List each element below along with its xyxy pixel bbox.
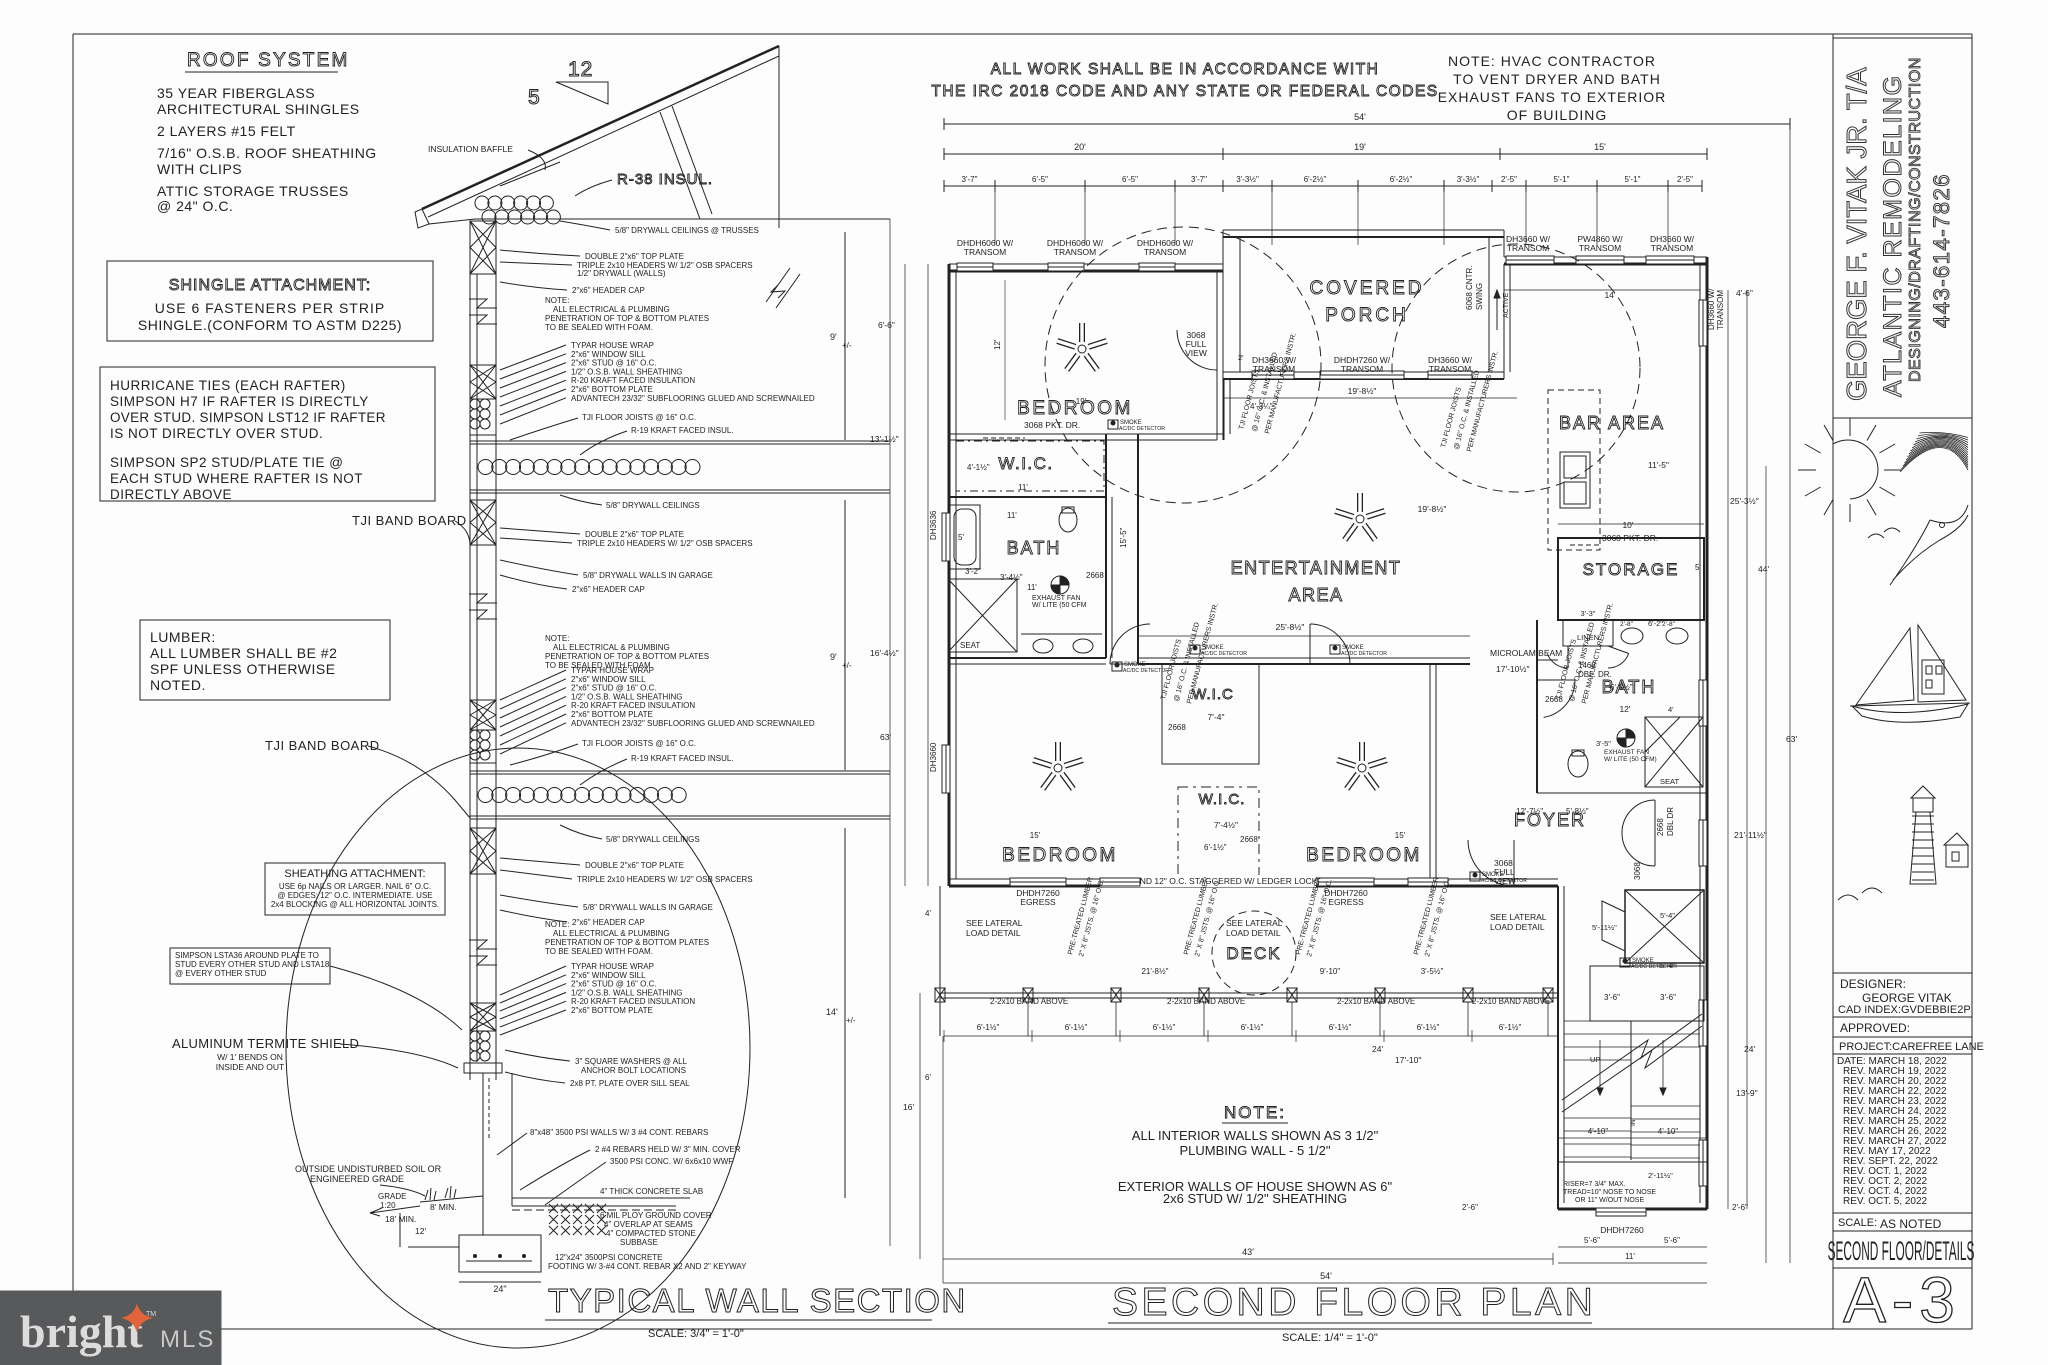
svg-text:3" SQUARE WASHERS @ ALL: 3" SQUARE WASHERS @ ALL [575, 1057, 688, 1066]
svg-text:2'-6": 2'-6" [1732, 1203, 1748, 1212]
svg-text:ENGINEERED GRADE: ENGINEERED GRADE [310, 1174, 404, 1184]
wall callout stack 3 [500, 962, 695, 1035]
svg-text:2"x6" HEADER CAP: 2"x6" HEADER CAP [572, 286, 645, 295]
note block 3 [545, 920, 709, 956]
svg-text:6'-1½": 6'-1½" [1499, 1023, 1522, 1032]
svg-text:3'-3½": 3'-3½" [1457, 175, 1480, 184]
svg-text:TYPICAL WALL SECTION: TYPICAL WALL SECTION [548, 1282, 967, 1319]
svg-text:6'-8½": 6'-8½" [1610, 683, 1633, 692]
svg-text:REV. OCT. 5, 2022: REV. OCT. 5, 2022 [1843, 1196, 1928, 1207]
note block 1 electrical plumbing [545, 296, 709, 332]
svg-text:12: 12 [568, 58, 593, 81]
svg-text:TRANSOM: TRANSOM [1054, 247, 1097, 257]
svg-text:4'-10": 4'-10" [1588, 1127, 1609, 1136]
svg-text:TYPAR HOUSE WRAP: TYPAR HOUSE WRAP [571, 341, 654, 350]
svg-text:4'-10": 4'-10" [1658, 1127, 1679, 1136]
svg-text:5/8" DRYWALL WALLS IN GARAGE: 5/8" DRYWALL WALLS IN GARAGE [583, 571, 713, 580]
svg-text:5/8" DRYWALL CEILINGS: 5/8" DRYWALL CEILINGS [606, 835, 700, 844]
svg-text:ADVANTECH 23/32" SUBFLOORING G: ADVANTECH 23/32" SUBFLOORING GLUED AND S… [571, 394, 815, 403]
right dim columns [1372, 124, 1797, 1263]
note block 2 [545, 634, 709, 670]
svg-text:TJI FLOOR JOISTS @ 16" O.C.: TJI FLOOR JOISTS @ 16" O.C. [582, 739, 696, 748]
svg-text:SIMPSON H7 IF RAFTER IS DIRECT: SIMPSON H7 IF RAFTER IS DIRECTLY [110, 394, 369, 409]
bath top-left room [948, 505, 1104, 653]
svg-text:15': 15' [1030, 831, 1041, 840]
svg-text:18' MIN.: 18' MIN. [385, 1214, 416, 1224]
svg-text:TM: TM [146, 1311, 156, 1318]
svg-text:4'-1½": 4'-1½" [967, 463, 990, 472]
svg-text:EXHAUST FAN: EXHAUST FAN [1032, 595, 1081, 602]
svg-text:3'-3½": 3'-3½" [1236, 175, 1259, 184]
svg-text:24": 24" [493, 1284, 506, 1294]
svg-text:+/-: +/- [846, 1016, 856, 1025]
svg-text:BEDROOM: BEDROOM [1306, 845, 1422, 866]
svg-text:EXHAUST FANS TO EXTERIOR: EXHAUST FANS TO EXTERIOR [1438, 89, 1667, 105]
svg-text:TO BE SEALED WITH FOAM.: TO BE SEALED WITH FOAM. [545, 323, 653, 332]
svg-text:DECK: DECK [1226, 944, 1281, 963]
wall break symbol 2 [469, 594, 497, 619]
svg-text:DOUBLE 2"x6" TOP PLATE: DOUBLE 2"x6" TOP PLATE [585, 530, 684, 539]
svg-text:6'-1½": 6'-1½" [1204, 843, 1227, 852]
foundation wall [483, 1073, 741, 1235]
svg-text:3'-7": 3'-7" [1191, 175, 1207, 184]
svg-text:19': 19' [1076, 397, 1087, 406]
svg-text:W.I.C: W.I.C [1192, 686, 1234, 703]
svg-text:BEDROOM: BEDROOM [1002, 845, 1118, 866]
drywall ceiling label 1 [560, 495, 700, 510]
svg-text:SCALE: 1/4" = 1'-0": SCALE: 1/4" = 1'-0" [1282, 1332, 1378, 1344]
svg-text:16': 16' [903, 1102, 914, 1112]
svg-text:5'-6": 5'-6" [1584, 1236, 1600, 1245]
svg-text:3'-6": 3'-6" [1604, 993, 1620, 1002]
svg-text:NOTE:: NOTE: [545, 920, 569, 929]
svg-text:LUMBER:: LUMBER: [150, 629, 216, 645]
svg-text:3'-5": 3'-5" [1596, 739, 1611, 748]
svg-text:W/ LITE (50 CFM): W/ LITE (50 CFM) [1604, 756, 1657, 763]
roof system heading [185, 50, 350, 72]
svg-text:DH3636: DH3636 [929, 510, 938, 540]
svg-text:ALL ELECTRICAL & PLUMBING: ALL ELECTRICAL & PLUMBING [553, 929, 670, 938]
svg-text:PENETRATION OF TOP & BOTTOM PL: PENETRATION OF TOP & BOTTOM PLATES [545, 938, 709, 947]
svg-text:2"x6" WINDOW SILL: 2"x6" WINDOW SILL [571, 675, 646, 684]
microlam beam label [1490, 648, 1562, 674]
svg-text:6'-1½": 6'-1½" [1417, 1023, 1440, 1032]
svg-text:TRANSOM: TRANSOM [1579, 243, 1622, 253]
svg-text:LINEN: LINEN [1577, 633, 1599, 642]
vertical wall right of middle bedroom [1430, 664, 1436, 886]
deck region [966, 912, 1547, 976]
svg-text:NOTE:: NOTE: [1224, 1103, 1286, 1122]
svg-text:14': 14' [1604, 290, 1615, 300]
anchor washers callouts [505, 1050, 690, 1088]
entertainment area label [1231, 558, 1402, 605]
svg-text:ALL WORK SHALL BE IN ACCORDANC: ALL WORK SHALL BE IN ACCORDANCE WITH [991, 61, 1380, 78]
svg-text:OR 11" W/OUT NOSE: OR 11" W/OUT NOSE [1575, 1197, 1644, 1204]
svg-text:6'-1½": 6'-1½" [1065, 1023, 1088, 1032]
svg-text:IS NOT DIRECTLY OVER STUD.: IS NOT DIRECTLY OVER STUD. [110, 426, 323, 441]
tji label 2 [510, 739, 696, 765]
svg-text:USE 6p NAILS OR LARGER. NAIL 6: USE 6p NAILS OR LARGER. NAIL 6" O.C. [279, 882, 431, 891]
svg-text:DH3660: DH3660 [929, 742, 938, 772]
svg-text:DBL DR: DBL DR [1666, 807, 1675, 836]
svg-text:4" OVERLAP AT SEAMS: 4" OVERLAP AT SEAMS [604, 1220, 693, 1229]
svg-text:APPROVED:: APPROVED: [1840, 1021, 1910, 1035]
svg-text:ADVANTECH 23/32" SUBFLOORING G: ADVANTECH 23/32" SUBFLOORING GLUED AND S… [571, 719, 815, 728]
svg-text:8"x48" 3500 PSI WALLS W/ 3 #4: 8"x48" 3500 PSI WALLS W/ 3 #4 CONT. REBA… [530, 1128, 708, 1137]
svg-text:3'-5½": 3'-5½" [1421, 967, 1444, 976]
svg-text:5'-4": 5'-4" [1660, 911, 1675, 920]
svg-text:BATH: BATH [1007, 538, 1062, 558]
svg-text:ALUMINUM TERMITE SHIELD: ALUMINUM TERMITE SHIELD [172, 1036, 359, 1051]
svg-text:ALL ELECTRICAL & PLUMBING: ALL ELECTRICAL & PLUMBING [553, 643, 670, 652]
plan bottom dims 43 54 [943, 1036, 1707, 1283]
svg-text:NOTE:: NOTE: [545, 296, 569, 305]
svg-text:9'-10": 9'-10" [1320, 967, 1341, 976]
svg-text:1468: 1468 [1578, 661, 1596, 670]
svg-text:5'-8½": 5'-8½" [1566, 807, 1589, 816]
svg-text:TRIPLE 2x10 HEADERS W/ 1/2" OS: TRIPLE 2x10 HEADERS W/ 1/2" OSB SPACERS [577, 539, 753, 548]
svg-text:SECOND FLOOR/DETAILS: SECOND FLOOR/DETAILS [1828, 1237, 1975, 1267]
svg-text:ARCHITECTURAL SHINGLES: ARCHITECTURAL SHINGLES [157, 101, 360, 117]
svg-text:SWING: SWING [1475, 283, 1484, 310]
svg-text:VIEW: VIEW [1494, 876, 1516, 886]
sheathing attachment note box [265, 863, 445, 915]
svg-text:6'-1½": 6'-1½" [977, 1023, 1000, 1032]
svg-text:1/2" DRYWALL (WALLS): 1/2" DRYWALL (WALLS) [577, 269, 666, 278]
svg-text:TRANSOM: TRANSOM [964, 247, 1007, 257]
svg-text:SHINGLE.(CONFORM TO ASTM D225): SHINGLE.(CONFORM TO ASTM D225) [138, 317, 402, 333]
svg-text:2'-6": 2'-6" [1462, 1203, 1478, 1212]
svg-text:NOTE: HVAC CONTRACTOR: NOTE: HVAC CONTRACTOR [1448, 53, 1656, 69]
svg-text:5: 5 [528, 86, 540, 109]
svg-text:2"x6" BOTTOM PLATE: 2"x6" BOTTOM PLATE [571, 710, 653, 719]
svg-text:24': 24' [1744, 1044, 1755, 1054]
door 3068 full view bedroom [1177, 330, 1217, 370]
svg-text:4" COMPACTED STONE: 4" COMPACTED STONE [606, 1229, 696, 1238]
svg-text:1/2" O.S.B. WALL SHEATHING: 1/2" O.S.B. WALL SHEATHING [571, 988, 682, 997]
svg-text:ROOF SYSTEM: ROOF SYSTEM [187, 50, 350, 71]
roof pitch triangle 12/5 [528, 58, 608, 109]
svg-text:SEAT: SEAT [1660, 777, 1679, 786]
svg-text:2"x6" STUD @ 16" O.C.: 2"x6" STUD @ 16" O.C. [571, 359, 657, 368]
svg-text:443-614-7826: 443-614-7826 [1929, 173, 1954, 328]
svg-text:7'-4": 7'-4" [1208, 712, 1225, 722]
svg-text:DBL. DR.: DBL. DR. [1578, 670, 1612, 679]
svg-text:5/8" DRYWALL WALLS IN GARAGE: 5/8" DRYWALL WALLS IN GARAGE [583, 903, 713, 912]
svg-text:SHEATHING ATTACHMENT:: SHEATHING ATTACHMENT: [284, 868, 425, 880]
svg-text:6'-2½": 6'-2½" [1390, 175, 1413, 184]
svg-text:W.I.C.: W.I.C. [998, 454, 1053, 473]
svg-text:19'-8½": 19'-8½" [1418, 504, 1447, 514]
plan note block [1118, 1103, 1393, 1206]
svg-text:6': 6' [925, 1073, 931, 1082]
svg-text:2 #4 REBARS HELD W/ 3" MIN. CO: 2 #4 REBARS HELD W/ 3" MIN. COVER [595, 1145, 741, 1154]
middle wall at y660 with doors [1110, 624, 1470, 664]
stud box 2 with insulation circles [470, 365, 496, 435]
svg-text:5': 5' [958, 533, 964, 542]
left dim column [870, 219, 931, 1259]
svg-text:R-20 KRAFT FACED INSULATION: R-20 KRAFT FACED INSULATION [571, 376, 695, 385]
svg-text:19': 19' [1354, 142, 1366, 152]
svg-text:TRANSOM: TRANSOM [1651, 243, 1694, 253]
svg-text:5'-1": 5'-1" [1625, 175, 1641, 184]
svg-text:2"x6" BOTTOM PLATE: 2"x6" BOTTOM PLATE [571, 385, 653, 394]
svg-text:2'-8": 2'-8" [1620, 621, 1634, 628]
svg-text:2668: 2668 [1240, 835, 1258, 844]
svg-text:LOAD DETAIL: LOAD DETAIL [1226, 928, 1281, 938]
svg-text:12': 12' [1619, 704, 1630, 714]
svg-text:ATLANTIC REMODELING: ATLANTIC REMODELING [1879, 74, 1907, 397]
svg-text:11': 11' [1027, 583, 1037, 592]
footing [459, 1235, 541, 1294]
title block designer section [1833, 973, 1984, 1054]
ceiling fan entertainment [1335, 493, 1384, 540]
svg-text:AC/DC DETECTOR: AC/DC DETECTOR [1201, 651, 1247, 657]
svg-text:1:20: 1:20 [380, 1201, 396, 1210]
svg-text:25'-3½": 25'-3½" [1730, 496, 1759, 506]
svg-text:17'-10": 17'-10" [1395, 1055, 1421, 1065]
wic middle 2 [1178, 787, 1259, 876]
title block revision list [1833, 1056, 1972, 1231]
svg-text:AREA: AREA [1288, 585, 1343, 605]
svg-text:CAD INDEX:GVDEBBIE2P: CAD INDEX:GVDEBBIE2P [1838, 1004, 1971, 1016]
svg-text:SEE LATERAL: SEE LATERAL [1490, 912, 1547, 922]
svg-text:4" THICK CONCRETE SLAB: 4" THICK CONCRETE SLAB [600, 1187, 703, 1196]
svg-text:2"x6" HEADER CAP: 2"x6" HEADER CAP [572, 585, 645, 594]
svg-text:3'-7": 3'-7" [962, 175, 978, 184]
svg-text:12'-7½": 12'-7½" [1516, 807, 1543, 816]
svg-text:OUTSIDE UNDISTURBED SOIL OR: OUTSIDE UNDISTURBED SOIL OR [295, 1164, 442, 1174]
svg-text:3'-2": 3'-2" [965, 567, 981, 576]
svg-text:21'-8½": 21'-8½" [1141, 967, 1168, 976]
svg-text:2 LAYERS #15 FELT: 2 LAYERS #15 FELT [157, 123, 296, 139]
svg-text:SEE LATERAL: SEE LATERAL [1226, 918, 1283, 928]
svg-text:11': 11' [1007, 511, 1017, 520]
ceiling line at trusses + label [496, 219, 890, 235]
svg-text:PORCH: PORCH [1325, 305, 1409, 326]
svg-text:ALL LUMBER SHALL BE #2: ALL LUMBER SHALL BE #2 [150, 645, 337, 661]
svg-text:3'-6": 3'-6" [1660, 993, 1676, 1002]
svg-text:1/2" O.S.B. WALL SHEATHING: 1/2" O.S.B. WALL SHEATHING [571, 692, 682, 701]
svg-text:EGRESS: EGRESS [1328, 897, 1364, 907]
svg-text:FOOTING W/ 3-#4 CONT. REBAR X2: FOOTING W/ 3-#4 CONT. REBAR X2 AND 2" KE… [548, 1262, 747, 1271]
svg-text:GEORGE F. VITAK JR. T/A: GEORGE F. VITAK JR. T/A [1841, 67, 1872, 401]
stud box 3 [470, 500, 496, 545]
typical wall section title [545, 1282, 967, 1340]
svg-text:2"x6" HEADER CAP: 2"x6" HEADER CAP [572, 918, 645, 927]
svg-text:AC/DC DETECTOR: AC/DC DETECTOR [1119, 426, 1165, 432]
svg-text:6 MIL PLOY GROUND COVER: 6 MIL PLOY GROUND COVER [600, 1211, 712, 1220]
insulation baffle label [428, 144, 560, 186]
svg-text:20': 20' [1074, 142, 1086, 152]
svg-text:2'-8": 2'-8" [1662, 621, 1676, 628]
svg-text:13'-9": 13'-9" [1736, 1088, 1758, 1098]
svg-text:TRIPLE 2x10 HEADERS W/ 1/2" OS: TRIPLE 2x10 HEADERS W/ 1/2" OSB SPACERS [577, 875, 753, 884]
typical wall section stud wall vertical lines [470, 227, 496, 1080]
floor band 1 with loop insulation [470, 441, 890, 493]
svg-text:DOUBLE 2"x6" TOP PLATE: DOUBLE 2"x6" TOP PLATE [585, 252, 684, 261]
svg-text:5'-11½": 5'-11½" [1592, 923, 1617, 932]
svg-text:ANCHOR BOLT LOCATIONS: ANCHOR BOLT LOCATIONS [581, 1066, 686, 1075]
tji band board label lower [265, 738, 470, 818]
svg-text:2-2x10 BAND ABOVE: 2-2x10 BAND ABOVE [1472, 997, 1550, 1006]
svg-text:2-2x10 BAND ABOVE: 2-2x10 BAND ABOVE [990, 997, 1068, 1006]
svg-text:R-20 KRAFT FACED INSULATION: R-20 KRAFT FACED INSULATION [571, 701, 695, 710]
svg-text:2"x6" WINDOW SILL: 2"x6" WINDOW SILL [571, 971, 646, 980]
sheet number A-3 [1843, 1264, 1961, 1336]
title block artwork: sun, marlin, sailboat, lighthouse [1798, 418, 1970, 900]
svg-text:2"x6" BOTTOM PLATE: 2"x6" BOTTOM PLATE [571, 1006, 653, 1015]
svg-text:+/-: +/- [842, 661, 852, 670]
svg-text:2x8 PT. PLATE OVER SILL SEAL: 2x8 PT. PLATE OVER SILL SEAL [570, 1079, 690, 1088]
svg-text:SHINGLE ATTACHMENT:: SHINGLE ATTACHMENT: [169, 277, 371, 294]
stud box 5 [470, 828, 496, 874]
dashed circles joist zones [1045, 227, 1640, 995]
drywall ceilings label 2 [560, 825, 700, 844]
svg-text:15': 15' [1395, 831, 1406, 840]
svg-text:2668: 2668 [1656, 818, 1665, 836]
svg-text:TRANSOM: TRANSOM [1341, 364, 1384, 374]
svg-text:6'-1½": 6'-1½" [1241, 1023, 1264, 1032]
svg-text:4'-6": 4'-6" [1736, 288, 1753, 298]
svg-text:EACH STUD WHERE RAFTER IS NOT: EACH STUD WHERE RAFTER IS NOT [110, 471, 363, 486]
svg-text:DESIGNING/DRAFTING/CONSTRUCTIO: DESIGNING/DRAFTING/CONSTRUCTION [1907, 57, 1924, 382]
bath right room [1537, 609, 1707, 793]
covered porch label [1310, 278, 1425, 326]
svg-text:3500 PSI CONC. W/ 6x6x10 WWF: 3500 PSI CONC. W/ 6x6x10 WWF [610, 1157, 733, 1166]
svg-text:+/-: +/- [842, 341, 852, 350]
bedroom bottom-left [1002, 831, 1118, 866]
simpson lsta36 note box [170, 948, 462, 1030]
aluminum termite shield label [172, 1036, 458, 1072]
svg-text:@ 24" O.C.: @ 24" O.C. [157, 198, 233, 214]
svg-text:STORAGE: STORAGE [1583, 560, 1680, 579]
vertical dim 14 ft 3 [826, 828, 856, 1198]
detail circle around foundation [286, 748, 750, 1348]
plate callouts 2 [500, 528, 753, 594]
svg-text:OF BUILDING: OF BUILDING [1507, 107, 1607, 123]
top plate callouts [500, 250, 753, 295]
svg-text:ATTIC STORAGE TRUSSES: ATTIC STORAGE TRUSSES [157, 183, 349, 199]
svg-text:IN: IN [1630, 1119, 1637, 1126]
windows in top wall [929, 256, 1725, 1186]
svg-text:TRANSOM: TRANSOM [1429, 364, 1472, 374]
svg-text:2'-5": 2'-5" [1501, 175, 1517, 184]
svg-text:5': 5' [1695, 563, 1701, 572]
plan dim row 20/19/15 [944, 142, 1707, 160]
stair bottom dims [1462, 1203, 1748, 1263]
svg-text:EGRESS: EGRESS [1020, 897, 1056, 907]
vertical dim 9 ft right of wall section 1 [830, 232, 852, 440]
svg-text:2668: 2668 [1086, 571, 1104, 580]
svg-text:A-3: A-3 [1843, 1264, 1961, 1336]
svg-text:R-19 KRAFT FACED INSUL.: R-19 KRAFT FACED INSUL. [631, 426, 734, 435]
wic top-left room [949, 441, 1106, 497]
stair block [1558, 886, 1707, 1209]
wall break symbol 1 [469, 299, 497, 324]
title block right strip [1833, 34, 1972, 1329]
svg-text:2668: 2668 [1545, 695, 1563, 704]
svg-text:24': 24' [1372, 1044, 1383, 1054]
svg-text:TJI BAND BOARD: TJI BAND BOARD [352, 513, 467, 528]
svg-text:12': 12' [415, 1226, 426, 1236]
svg-text:TYPAR HOUSE WRAP: TYPAR HOUSE WRAP [571, 666, 654, 675]
svg-text:TRANSOM: TRANSOM [1144, 247, 1187, 257]
stud box 4 with circles [470, 700, 496, 763]
window drop lines from dims [995, 192, 1668, 245]
svg-text:WITH CLIPS: WITH CLIPS [157, 161, 242, 177]
svg-text:10': 10' [1622, 520, 1633, 530]
svg-text:W.I.C.: W.I.C. [1199, 791, 1246, 808]
svg-text:15'-5": 15'-5" [1119, 527, 1128, 548]
plan dim row segments [944, 175, 1702, 192]
lag band note along bottom wall [1100, 875, 1323, 887]
svg-text:5/8" DRYWALL CEILINGS: 5/8" DRYWALL CEILINGS [606, 501, 700, 510]
door 3068 full view lower-left [1494, 840, 1516, 886]
vertical wall between left rooms and entertainment [1106, 434, 1138, 664]
svg-text:2-2x10 BAND ABOVE: 2-2x10 BAND ABOVE [1337, 997, 1415, 1006]
svg-text:63': 63' [880, 732, 891, 742]
svg-text:11': 11' [1625, 1252, 1635, 1261]
grade line and soil labels [295, 1164, 483, 1247]
wall bath bottom / bedroom2 top [949, 658, 1106, 664]
svg-text:44': 44' [1758, 564, 1769, 574]
svg-text:@ EDGES; 12" O.C. INTERMEDIATE: @ EDGES; 12" O.C. INTERMEDIATE. USE [277, 891, 432, 900]
tji band board label upper [352, 513, 470, 545]
second floor plan title [1108, 1281, 1596, 1344]
svg-text:GEORGE VITAK: GEORGE VITAK [1862, 991, 1952, 1005]
svg-text:6'-1½": 6'-1½" [1153, 1023, 1176, 1032]
r19 label 2 [580, 754, 734, 785]
svg-text:7/16" O.S.B. ROOF SHEATHING: 7/16" O.S.B. ROOF SHEATHING [157, 145, 377, 161]
svg-text:6068 CNTR.: 6068 CNTR. [1465, 266, 1474, 310]
roof slope lines [415, 46, 800, 308]
svg-text:2': 2' [1238, 353, 1244, 362]
svg-text:2"x6" WINDOW SILL: 2"x6" WINDOW SILL [571, 350, 646, 359]
bar area [1504, 264, 1700, 550]
svg-text:EXHAUST FAN: EXHAUST FAN [1604, 749, 1649, 756]
general note: all work accordance [931, 61, 1438, 100]
bright MLS logo [0, 1291, 221, 1365]
svg-text:6'-1½": 6'-1½" [1329, 1023, 1352, 1032]
svg-text:ALL INTERIOR WALLS SHOWN AS 3: ALL INTERIOR WALLS SHOWN AS 3 1/2" [1132, 1128, 1379, 1143]
svg-text:6'-5": 6'-5" [1122, 175, 1138, 184]
svg-text:DESIGNER:: DESIGNER: [1840, 977, 1906, 991]
tji joists rotated note 2 [1440, 350, 1500, 453]
svg-text:2"x6" STUD @ 16" O.C.: 2"x6" STUD @ 16" O.C. [571, 684, 657, 693]
r19 label 1 [580, 426, 734, 455]
svg-text:13'-1½": 13'-1½" [870, 434, 899, 444]
svg-text:2-2x10 BAND ABOVE: 2-2x10 BAND ABOVE [1167, 997, 1245, 1006]
svg-text:AC/DC DETECTOR: AC/DC DETECTOR [1123, 668, 1169, 674]
svg-text:R-38 INSUL.: R-38 INSUL. [617, 171, 713, 188]
svg-text:PLUMBING WALL - 5 1/2": PLUMBING WALL - 5 1/2" [1179, 1143, 1330, 1158]
svg-text:35 YEAR FIBERGLASS: 35 YEAR FIBERGLASS [157, 85, 315, 101]
lumber note box [140, 620, 390, 700]
smoke detectors [1108, 420, 1677, 970]
svg-text:16'-4½": 16'-4½" [870, 648, 899, 658]
svg-text:MICROLAM BEAM: MICROLAM BEAM [1490, 648, 1562, 658]
svg-text:LOAD DETAIL: LOAD DETAIL [1490, 922, 1545, 932]
svg-text:COVERED: COVERED [1310, 278, 1425, 299]
svg-text:2'-11½": 2'-11½" [1648, 1171, 1673, 1180]
svg-text:12"x24" 3500PSI CONCRETE: 12"x24" 3500PSI CONCRETE [555, 1253, 663, 1262]
roof system notes [157, 85, 377, 214]
svg-text:VIEW: VIEW [1185, 348, 1207, 358]
pre-treated lumber rotated notes on deck [1067, 876, 1451, 957]
svg-text:bright: bright [20, 1306, 143, 1357]
svg-text:3068: 3068 [1633, 862, 1642, 880]
